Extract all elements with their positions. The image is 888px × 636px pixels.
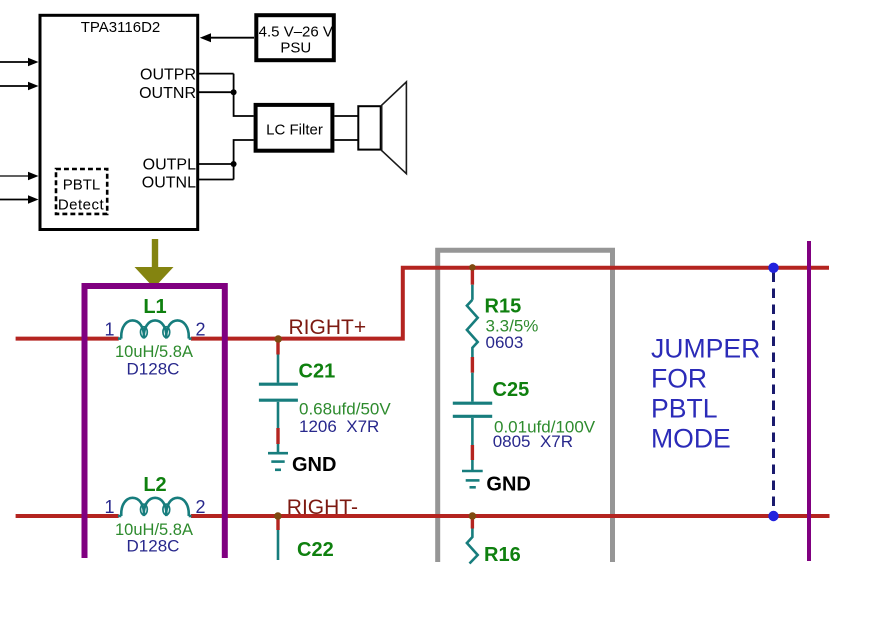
svg-text:L1: L1	[143, 296, 166, 318]
svg-text:GND: GND	[486, 474, 530, 496]
svg-text:0603: 0603	[486, 333, 524, 352]
svg-text:PSU: PSU	[280, 40, 311, 57]
svg-text:2: 2	[195, 320, 205, 340]
svg-text:PBTL: PBTL	[651, 394, 718, 424]
svg-text:10uH/5.8A: 10uH/5.8A	[115, 343, 193, 361]
svg-text:FOR: FOR	[651, 364, 707, 394]
svg-text:D128C: D128C	[127, 537, 180, 556]
svg-text:TPA3116D2: TPA3116D2	[81, 19, 161, 36]
svg-text:C22: C22	[297, 539, 334, 561]
svg-text:2: 2	[195, 497, 205, 517]
svg-text:0.68ufd/50V: 0.68ufd/50V	[299, 400, 391, 419]
svg-text:C25: C25	[493, 379, 530, 401]
svg-text:Detect: Detect	[58, 197, 105, 214]
svg-text:OUTPL: OUTPL	[143, 157, 196, 174]
svg-text:RIGHT-: RIGHT-	[287, 496, 358, 519]
svg-text:4.5 V–26 V: 4.5 V–26 V	[259, 24, 333, 41]
svg-text:RIGHT+: RIGHT+	[289, 316, 367, 339]
svg-text:LC Filter: LC Filter	[266, 122, 323, 139]
svg-text:MODE: MODE	[651, 424, 731, 454]
svg-text:OUTPR: OUTPR	[140, 67, 196, 84]
svg-text:OUTNR: OUTNR	[139, 85, 196, 102]
svg-text:1: 1	[104, 320, 114, 340]
svg-text:JUMPER: JUMPER	[651, 334, 760, 364]
svg-text:OUTNL: OUTNL	[142, 175, 196, 192]
svg-text:R16: R16	[484, 544, 521, 566]
svg-text:GND: GND	[292, 454, 336, 476]
svg-text:0805 X7R: 0805 X7R	[493, 432, 573, 451]
svg-text:R15: R15	[485, 296, 522, 318]
svg-text:C21: C21	[299, 361, 336, 383]
svg-text:PBTL: PBTL	[63, 177, 101, 194]
svg-text:1: 1	[104, 497, 114, 517]
svg-text:D128C: D128C	[127, 360, 180, 379]
svg-text:1206 X7R: 1206 X7R	[299, 417, 379, 436]
svg-text:L2: L2	[143, 474, 166, 496]
